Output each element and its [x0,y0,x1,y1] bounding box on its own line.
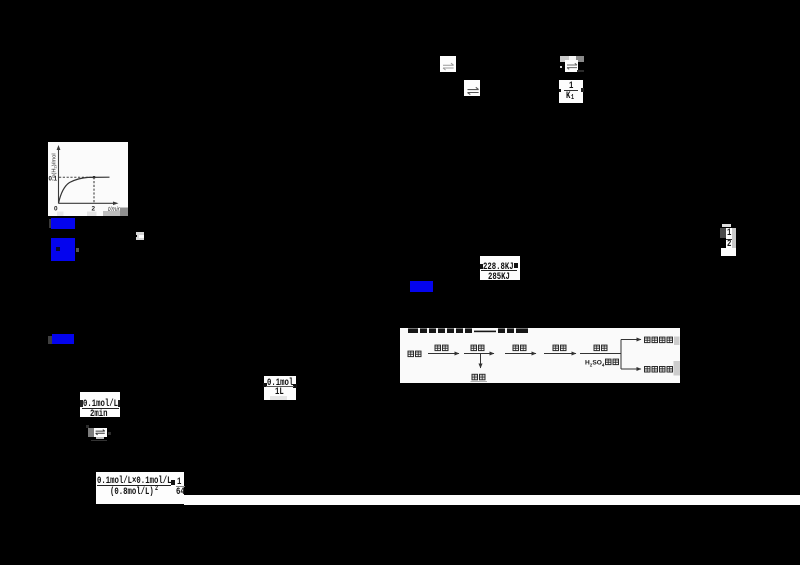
铝材 [408,351,414,357]
curve [59,177,110,203]
svg-text:n(H2)/mol: n(H2)/mol [52,153,58,177]
equilibrium box B [464,80,480,96]
arrow 2 (碱洗) [464,352,494,354]
branch [620,339,622,369]
equilibrium box A [440,56,456,72]
down arrow to 槽液 [480,354,482,368]
blue highlight box 4 [48,336,52,345]
fraction 0.1mol/L / 2min [80,392,120,418]
bottom formula K calculation [96,472,184,504]
graph image n(H2)/mol vs t/min [48,142,128,216]
fraction 0.1mol / 1L [264,376,296,401]
white strip / blank line [184,495,800,505]
equilibrium box C with gray patches [560,56,569,63]
vertical dashed at t=2 [93,177,95,203]
equilibrium box D with noise [88,428,94,437]
dashed 0.1 level [59,176,93,178]
arrow 4 (除灰) [544,352,576,354]
flow diagram [400,328,680,383]
blue highlight box 2 [51,238,75,261]
fraction 1/2 with gray patches [722,224,731,228]
fraction 228.8KJ / 285KJ [480,256,521,281]
耐蚀铝材 [645,337,651,343]
svg-text:2: 2 [92,206,96,213]
svg-text:0.1: 0.1 [49,176,58,183]
arrow 3 (水洗) [505,352,536,354]
arrow 1 (脱脂) [428,352,459,354]
small gray glyph remnant [136,232,144,240]
line 5 (电解 / H2SO4) to branch [580,352,621,354]
fraction 1/K1 [559,80,583,104]
x-axis [59,202,117,204]
blue highlight box 3 [410,281,433,292]
clipped dark text line at top [408,328,528,333]
y-axis [58,147,60,204]
svg-text:H2SO4: H2SO4 [585,359,605,367]
svg-text:0: 0 [54,206,58,213]
废电解液 [645,366,651,372]
gray artifacts bottom [57,212,64,217]
blue highlight box 1 [49,219,52,228]
